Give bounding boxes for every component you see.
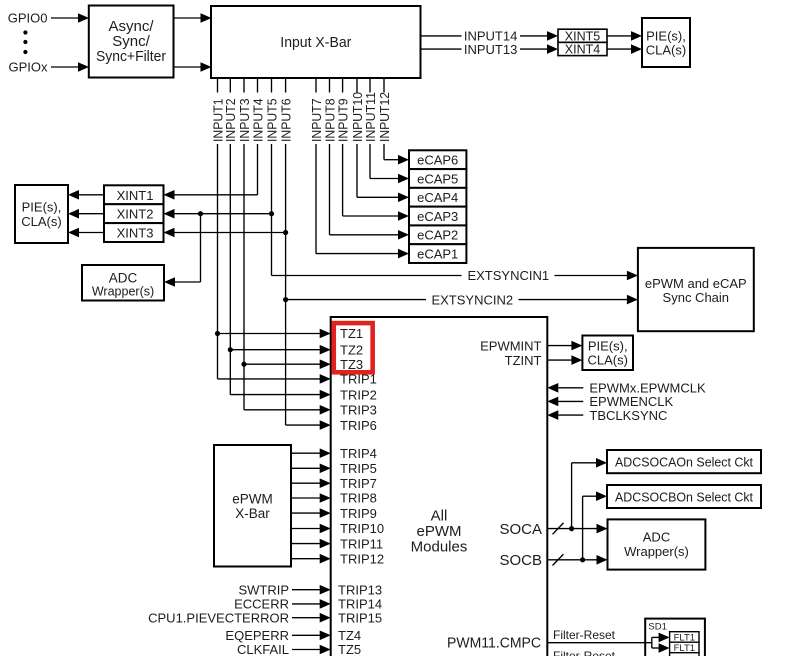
svg-text:TBCLKSYNC: TBCLKSYNC (589, 408, 667, 423)
wire TZINT to PIE/CLA (547, 359, 572, 361)
block U1 Async/Sync/Sync+Filter (89, 6, 174, 78)
block PIE(s) CLA(s) right (582, 336, 633, 371)
wire INPUT3 to TZ3 (244, 363, 320, 365)
block ePWM and eCAP Sync Chain (638, 248, 754, 331)
wire XINT2 line to ADC Wrapper left (200, 214, 202, 282)
block ePWM X-Bar (214, 445, 291, 567)
svg-text:INPUT13: INPUT13 (464, 42, 517, 57)
svg-text:TRIP5: TRIP5 (340, 461, 377, 476)
svg-text:ePWM: ePWM (417, 523, 462, 540)
svg-text:TRIP11: TRIP11 (340, 536, 383, 551)
wire ePWM X-Bar to TRIP10 (291, 528, 320, 530)
svg-text:All: All (431, 507, 448, 524)
svg-text:XINT2: XINT2 (117, 207, 154, 222)
svg-text:Filter-Reset: Filter-Reset (553, 649, 616, 656)
svg-text:GPIOx: GPIOx (8, 60, 48, 75)
wire INPUT13 to XINT4 (421, 48, 462, 50)
svg-text:eCAP4: eCAP4 (417, 190, 458, 205)
svg-text:EPWMINT: EPWMINT (480, 338, 541, 353)
block eCAP4 (409, 188, 466, 207)
svg-text:TZ2: TZ2 (340, 342, 363, 357)
wire INPUT6 to XINT3 (175, 232, 286, 234)
svg-text:TRIP14: TRIP14 (338, 597, 382, 612)
svg-text:TRIP15: TRIP15 (338, 610, 382, 625)
junction XINT2-ADCWrapper branch (198, 211, 203, 216)
svg-text:X-Bar: X-Bar (235, 506, 270, 521)
wire XINT5 to PIE/CLA (607, 35, 631, 37)
wire Async to Input X-Bar lower (174, 66, 201, 68)
wire CLKFAIL to TZ5 (292, 649, 320, 651)
wire EXTSYNCIN1 (272, 275, 462, 277)
wire INPUT5 to XINT2 (175, 213, 272, 215)
block XINT4 (558, 42, 607, 55)
red highlight box around TZ1-TZ3 (334, 323, 373, 372)
junction SOCB branch (580, 557, 585, 562)
svg-text:CLA(s): CLA(s) (646, 43, 686, 58)
svg-text:GPIO0: GPIO0 (8, 11, 48, 26)
svg-text:eCAP3: eCAP3 (417, 209, 458, 224)
wire EXTSYNCIN2 (286, 299, 426, 301)
junction SOCA branch (569, 526, 574, 531)
wire SOCA to ADC Wrapper (547, 528, 597, 530)
block XINT3 (104, 223, 164, 242)
wire INPUT12 to eCAP6 (384, 159, 398, 161)
svg-text:ADC: ADC (109, 270, 138, 285)
GPIO ellipsis dots (23, 30, 27, 34)
wire INPUT11 to eCAP5 (370, 178, 398, 180)
wire ePWM X-Bar to TRIP12 (291, 558, 320, 560)
svg-text:PIE(s),: PIE(s), (646, 29, 686, 44)
wire INPUT1 to TZ1 (218, 333, 321, 335)
wire XINT2 to PIE/CLA left (79, 213, 104, 215)
wire TBCLKSYNC (547, 410, 558, 420)
svg-text:CLKFAIL: CLKFAIL (237, 642, 289, 656)
svg-text:INPUT12: INPUT12 (377, 92, 392, 142)
wire ePWM X-Bar to TRIP5 (291, 467, 320, 469)
svg-text:EXTSYNCIN1: EXTSYNCIN1 (467, 268, 549, 283)
block FLT1 second (670, 642, 699, 653)
svg-text:eCAP2: eCAP2 (417, 228, 458, 243)
block eCAP1 (409, 244, 466, 263)
wire ePWM X-Bar to TRIP8 (291, 497, 320, 499)
wire INPUT14 to XINT5 (421, 35, 462, 37)
svg-text:TRIP4: TRIP4 (340, 446, 377, 461)
svg-text:TRIP12: TRIP12 (340, 551, 384, 566)
wire INPUT4 vertical (257, 78, 259, 93)
svg-text:TZ5: TZ5 (338, 642, 361, 656)
svg-text:INPUT5: INPUT5 (264, 99, 279, 143)
wire ePWM X-Bar to TRIP11 (291, 543, 320, 545)
svg-text:SD1: SD1 (648, 621, 666, 632)
svg-text:XINT5: XINT5 (565, 30, 600, 44)
block XINT2 (104, 204, 164, 223)
svg-text:eCAP5: eCAP5 (417, 171, 458, 186)
wire TRIP1 (218, 378, 321, 380)
wire INPUT7 vertical (315, 78, 317, 93)
wire INPUT9 to eCAP3 (343, 215, 398, 217)
svg-text:Wrapper(s): Wrapper(s) (92, 285, 154, 299)
junction INPUT6-EXTSYNCIN2 (283, 297, 288, 302)
junction INPUT2-TZ2 (228, 347, 233, 352)
svg-text:TZ4: TZ4 (338, 628, 361, 643)
wire ECCERR to TRIP14 (292, 603, 320, 605)
wire EPWMENCLK (547, 397, 558, 407)
junction INPUT6-XINT3 (283, 230, 288, 235)
svg-text:TRIP9: TRIP9 (340, 506, 377, 521)
svg-text:EXTSYNCIN2: EXTSYNCIN2 (431, 292, 513, 307)
wire EQEPERR to TZ4 (292, 634, 320, 636)
svg-text:CLA(s): CLA(s) (21, 214, 61, 229)
wire ePWM X-Bar to TRIP7 (291, 482, 320, 484)
svg-text:Sync Chain: Sync Chain (663, 290, 729, 305)
wire TRIP2 (230, 394, 320, 396)
svg-text:TRIP2: TRIP2 (340, 387, 377, 402)
svg-text:XINT3: XINT3 (117, 226, 154, 241)
wire EPWMx.EPWMCLK (547, 383, 558, 393)
svg-text:eCAP6: eCAP6 (417, 153, 458, 168)
wire ePWM X-Bar to TRIP4 (291, 452, 320, 454)
svg-text:PIE(s),: PIE(s), (588, 339, 628, 354)
wire INPUT2 to TZ2 (230, 349, 320, 351)
block PIE(s) CLA(s) left (15, 185, 68, 243)
wire TRIP6 (286, 424, 320, 426)
svg-text:PWM11.CMPC: PWM11.CMPC (447, 635, 541, 652)
wire ePWM X-Bar to TRIP9 (291, 512, 320, 514)
svg-text:SOCA: SOCA (499, 521, 542, 538)
wire GPIOx to Async block (51, 66, 78, 68)
svg-text:eCAP1: eCAP1 (417, 246, 458, 261)
wire SOCB to ADC Wrapper (547, 559, 597, 561)
block XINT5 (558, 29, 607, 42)
wire EPWMINT to PIE/CLA (547, 345, 572, 347)
block ADCSOCAOn Select Ckt (607, 450, 761, 473)
svg-text:TRIP8: TRIP8 (340, 491, 377, 506)
bus slash SOCA (553, 523, 564, 534)
svg-text:Sync+Filter: Sync+Filter (96, 48, 166, 65)
svg-text:Modules: Modules (411, 538, 468, 555)
wire INPUT8 vertical (329, 78, 331, 93)
svg-text:ePWM and eCAP: ePWM and eCAP (645, 276, 747, 291)
block ADC Wrapper left (82, 265, 164, 301)
wire INPUT9 vertical (342, 78, 344, 93)
svg-text:TRIP13: TRIP13 (338, 582, 382, 597)
block eCAP6 (409, 150, 466, 169)
block eCAP5 (409, 169, 466, 188)
wire Filter-Reset from PWM11.CMPC (547, 642, 652, 644)
svg-text:ADC: ADC (643, 530, 670, 545)
wire INPUT6 vertical (285, 78, 287, 93)
wire GPIO0 to Async block (51, 17, 78, 19)
wire INPUT10 vertical (356, 78, 358, 93)
svg-text:ADCSOCAOn Select Ckt: ADCSOCAOn Select Ckt (615, 454, 753, 469)
block PIE(s) CLA(s) top right (642, 18, 690, 67)
wire SOCA to ADCSOCAOn Select Ckt (571, 463, 573, 529)
wire INPUT1 vertical (217, 78, 219, 93)
svg-text:TZ3: TZ3 (340, 357, 363, 372)
svg-text:SWTRIP: SWTRIP (238, 582, 289, 597)
wire SWTRIP to TRIP13 (292, 589, 320, 591)
wire INPUT10 to eCAP4 (357, 196, 398, 198)
svg-text:ADCSOCBOn Select Ckt: ADCSOCBOn Select Ckt (615, 489, 753, 504)
svg-text:INPUT4: INPUT4 (250, 99, 265, 143)
block ADC Wrapper right (608, 519, 706, 569)
svg-text:XINT1: XINT1 (117, 188, 154, 203)
block XINT1 (104, 185, 164, 204)
svg-text:TRIP10: TRIP10 (340, 521, 384, 536)
block FLT1 third partial (670, 653, 699, 656)
svg-text:ECCERR: ECCERR (234, 597, 289, 612)
junction INPUT1-TZ1 (215, 331, 220, 336)
wire INPUT2 vertical (229, 78, 231, 93)
wire INPUT5 vertical (271, 78, 273, 93)
wire XINT4 to PIE/CLA (607, 48, 631, 50)
wire INPUT8 to eCAP2 (330, 234, 399, 236)
svg-text:TRIP7: TRIP7 (340, 476, 377, 491)
wire XINT1 to PIE/CLA left (79, 194, 104, 196)
block ADCSOCBOn Select Ckt (607, 485, 761, 508)
svg-text:TRIP6: TRIP6 (340, 418, 377, 433)
svg-text:ePWM: ePWM (232, 491, 273, 506)
block Input X-Bar (211, 6, 421, 78)
svg-text:TRIP3: TRIP3 (340, 402, 377, 417)
svg-text:Filter-Reset: Filter-Reset (553, 628, 616, 642)
junction INPUT3-TZ3 (241, 362, 246, 367)
svg-text:INPUT9: INPUT9 (335, 99, 350, 143)
block eCAP2 (409, 225, 466, 244)
wire INPUT12 vertical (383, 78, 385, 93)
svg-text:EQEPERR: EQEPERR (225, 628, 289, 643)
block All ePWM Modules (331, 317, 548, 656)
wire INPUT7 to eCAP1 (316, 253, 398, 255)
wire XINT3 to PIE/CLA left (79, 232, 104, 234)
svg-text:INPUT6: INPUT6 (278, 99, 293, 143)
block SD1 (645, 619, 705, 656)
bus slash SOCB (553, 554, 564, 565)
wire TRIP3 (244, 409, 320, 411)
svg-text:TRIP1: TRIP1 (340, 372, 377, 387)
svg-text:CLA(s): CLA(s) (587, 353, 627, 368)
block FLT1 first (670, 632, 699, 643)
wire SOCB to ADCSOCBOn Select Ckt (582, 496, 584, 560)
wire Async to Input X-Bar upper (174, 17, 201, 19)
svg-text:Input X-Bar: Input X-Bar (280, 34, 351, 51)
svg-text:CPU1.PIEVECTERROR: CPU1.PIEVECTERROR (148, 610, 289, 625)
svg-text:TZ1: TZ1 (340, 326, 363, 341)
wire INPUT11 vertical (369, 78, 371, 93)
svg-text:XINT4: XINT4 (565, 43, 600, 57)
junction INPUT5-XINT2 (269, 211, 274, 216)
svg-text:INPUT11: INPUT11 (363, 92, 378, 142)
wire INPUT4 to XINT1 (175, 194, 258, 196)
svg-text:TZINT: TZINT (505, 353, 542, 368)
wire INPUT3 vertical (243, 78, 245, 93)
svg-text:SOCB: SOCB (499, 552, 542, 569)
svg-text:Wrapper(s): Wrapper(s) (624, 544, 689, 559)
block eCAP3 (409, 207, 466, 226)
wire CPU1.PIEVECTERROR to TRIP15 (292, 617, 320, 619)
svg-text:PIE(s),: PIE(s), (22, 199, 62, 214)
